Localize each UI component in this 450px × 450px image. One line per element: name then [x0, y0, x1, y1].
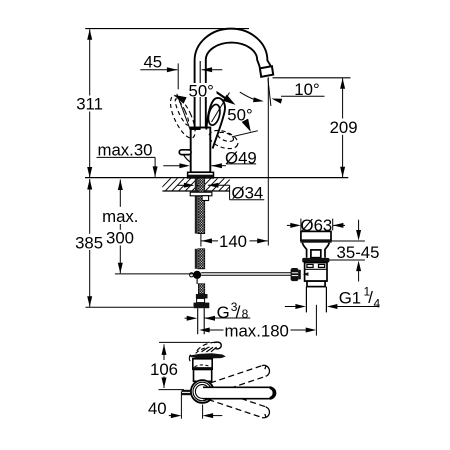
svg-text:8: 8: [242, 307, 249, 321]
svg-text:140: 140: [219, 232, 247, 251]
wire: mounting deck top surface line: [85, 177, 348, 179]
wire: top extension line from spout apex to 311 dim: [85, 28, 249, 30]
hose lower knurl: [198, 284, 204, 294]
ball joint dot: [193, 271, 201, 279]
svg-text:G: G: [217, 303, 230, 322]
left stub: [182, 390, 191, 395]
dim 385: [89, 179, 91, 234]
svg-text:50°: 50°: [189, 81, 214, 100]
water stream vertical extension line (to 140 dim): [267, 77, 269, 245]
pop-up rod upper: [195, 178, 197, 233]
flange: [301, 231, 331, 240]
white pill left of dot: [190, 273, 194, 277]
dim 35-45: [358, 220, 360, 230]
dim 45: [140, 69, 177, 71]
seal band: [302, 258, 329, 263]
deck hatching: [158, 178, 238, 191]
svg-text:max.30: max.30: [97, 140, 152, 159]
hose collar: [196, 294, 208, 298]
spout tube: [195, 29, 272, 129]
wire: horizontal reference line at spout outlet (209 top): [273, 77, 351, 79]
spout center highlight line: [199, 61, 201, 128]
base flange: [188, 172, 214, 178]
svg-text:/: /: [368, 288, 373, 307]
dim 140: [200, 234, 202, 247]
svg-text:max.: max.: [102, 207, 138, 226]
50deg leader lines + bold arrows: [177, 93, 258, 137]
max.30 underline + leader: [97, 156, 156, 158]
svg-text:Ø49: Ø49: [225, 149, 257, 168]
horizontal pop-up actuating rod: [115, 273, 291, 276]
svg-text:40: 40: [148, 399, 167, 418]
dim 209: [342, 78, 344, 118]
svg-text:max.180: max.180: [225, 321, 289, 340]
deck bottom line: [162, 190, 229, 192]
dim 311: [89, 29, 91, 95]
center line: [315, 305, 317, 336]
dim max.180: [210, 329, 224, 331]
svg-text:300: 300: [106, 228, 134, 247]
dim 106: [163, 344, 165, 360]
shank knurl upper: [198, 178, 205, 234]
knurled knob (rod joint): [291, 268, 299, 281]
dim max300: [119, 180, 121, 207]
dashed swing arcs above handle: [197, 342, 217, 351]
svg-text:Ø63: Ø63: [301, 216, 333, 235]
faucet body: [191, 128, 211, 173]
svg-text:/: /: [236, 303, 241, 322]
10deg leader underline: [281, 95, 325, 97]
body top thick cap: [191, 127, 201, 130]
dim G3/8: [185, 317, 187, 319]
spout outer contour: [195, 29, 272, 129]
neck: [302, 243, 329, 258]
svg-text:G1: G1: [339, 288, 361, 307]
dim G1 1/4: [285, 306, 296, 308]
svg-text:45: 45: [143, 52, 162, 71]
svg-text:10°: 10°: [294, 80, 319, 99]
dim Ø63: [287, 224, 291, 226]
dashed rotated spout up: [208, 364, 271, 395]
solid spout bar: [203, 387, 276, 398]
svg-text:50°: 50°: [227, 105, 252, 124]
pivot circles: [191, 380, 214, 403]
dim Ø49: [163, 165, 179, 167]
lower body: [194, 370, 212, 382]
lever hook: [214, 342, 221, 349]
svg-text:35-45: 35-45: [337, 243, 380, 262]
svg-text:385: 385: [75, 233, 103, 252]
dim Ø34: [178, 184, 185, 186]
tailpipe: [305, 287, 307, 313]
upper body: [193, 359, 212, 369]
svg-text:106: 106: [150, 360, 178, 379]
loop handle (solid): [206, 98, 225, 149]
lever grip strokes: [202, 347, 217, 352]
svg-text:4: 4: [374, 297, 381, 311]
dashed rotated spout down: [208, 389, 271, 420]
lower body: [307, 281, 325, 287]
hose resumes below break: [195, 249, 197, 269]
svg-text:Ø34: Ø34: [232, 183, 264, 202]
dashed handle position left (50deg): [166, 93, 200, 142]
dim 40: [169, 415, 171, 417]
svg-text:209: 209: [330, 118, 358, 137]
drain body: [305, 263, 327, 282]
center boss: [311, 250, 321, 258]
aerator at spout end: [260, 66, 273, 77]
dashed handle position right (50deg): [207, 127, 241, 152]
supply tube end: [197, 308, 199, 334]
spout inner contour: [206, 43, 260, 129]
svg-text:311: 311: [76, 95, 103, 114]
left temperature tab: [179, 150, 191, 155]
10deg arc: [240, 92, 260, 101]
10deg slanted stream line: [268, 79, 271, 107]
385 bottom ext: [86, 306, 194, 308]
threaded shank + pop-up rod through deck: [190, 178, 212, 334]
mounting nut: [190, 192, 212, 196]
lever blade (dark): [190, 353, 226, 358]
G3/8 nut: [194, 303, 210, 309]
Ø63 extension lines: [300, 219, 302, 231]
arrowheads: [87, 29, 92, 40]
